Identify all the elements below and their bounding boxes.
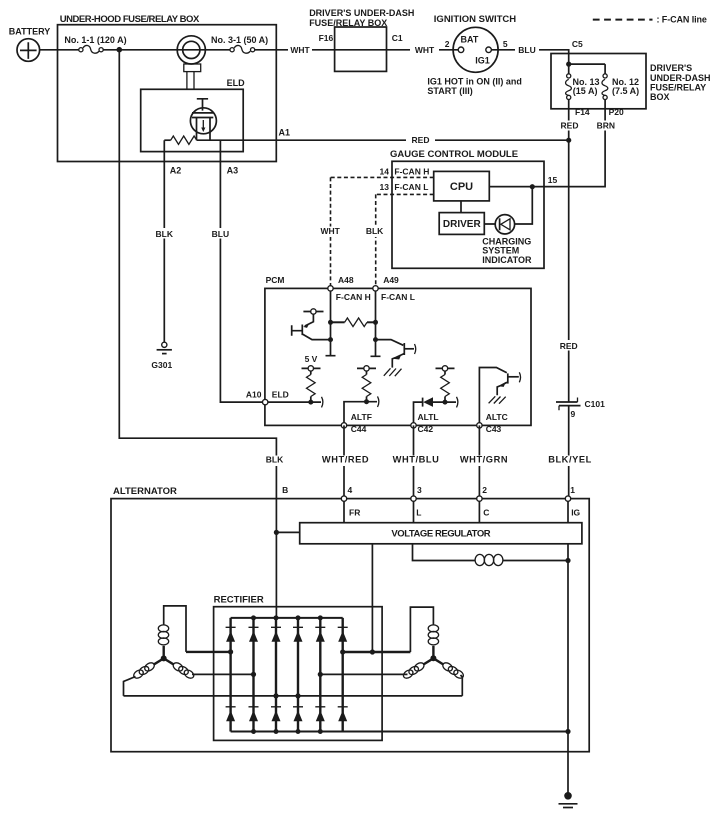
- svg-text:(15 A): (15 A): [573, 86, 598, 96]
- svg-text:FUSE/RELAY: FUSE/RELAY: [650, 83, 706, 93]
- svg-text:4: 4: [348, 485, 353, 495]
- svg-text:P20: P20: [609, 107, 624, 117]
- svg-text:BLK: BLK: [266, 455, 284, 465]
- svg-text:UNDER-DASH: UNDER-DASH: [650, 73, 711, 83]
- svg-text:DRIVER: DRIVER: [443, 219, 482, 230]
- svg-text:5: 5: [503, 39, 508, 49]
- svg-text:No. 1-1 (120 A): No. 1-1 (120 A): [64, 35, 126, 45]
- svg-text:BATTERY: BATTERY: [9, 26, 51, 36]
- svg-text:IG1: IG1: [475, 55, 490, 65]
- svg-text:F-CAN L: F-CAN L: [394, 182, 428, 192]
- svg-text:FR: FR: [349, 508, 360, 518]
- svg-text:L: L: [416, 508, 421, 518]
- svg-text:F-CAN L: F-CAN L: [381, 292, 415, 302]
- svg-text:C101: C101: [585, 399, 606, 409]
- svg-text:WHT: WHT: [290, 45, 310, 55]
- svg-text:IG: IG: [571, 508, 580, 518]
- svg-text:RED: RED: [560, 341, 578, 351]
- svg-text:BLK: BLK: [366, 226, 384, 236]
- svg-text:9: 9: [571, 409, 576, 419]
- svg-text:1: 1: [570, 485, 575, 495]
- svg-text:WHT: WHT: [321, 226, 341, 236]
- svg-text:2: 2: [482, 485, 487, 495]
- svg-text:C44: C44: [351, 424, 367, 434]
- svg-text:CPU: CPU: [450, 181, 473, 193]
- svg-text:A10: A10: [246, 389, 262, 399]
- svg-text:14: 14: [380, 166, 390, 176]
- svg-text:C: C: [483, 508, 489, 518]
- svg-text:C42: C42: [418, 424, 434, 434]
- svg-text:A48: A48: [338, 275, 354, 285]
- svg-text:ALTC: ALTC: [486, 412, 508, 422]
- svg-text:RECTIFIER: RECTIFIER: [214, 594, 264, 605]
- svg-text:C5: C5: [572, 39, 583, 49]
- svg-text:ELD: ELD: [227, 78, 246, 88]
- svg-text:GAUGE CONTROL MODULE: GAUGE CONTROL MODULE: [390, 149, 518, 160]
- svg-text:BOX: BOX: [650, 92, 670, 102]
- svg-text:(7.5 A): (7.5 A): [612, 86, 639, 96]
- svg-text:VOLTAGE REGULATOR: VOLTAGE REGULATOR: [391, 529, 490, 540]
- svg-text:DRIVER'S UNDER-DASH: DRIVER'S UNDER-DASH: [309, 8, 414, 18]
- svg-text:WHT: WHT: [415, 45, 435, 55]
- svg-text:F16: F16: [319, 33, 334, 43]
- svg-text:BLK/YEL: BLK/YEL: [548, 455, 592, 465]
- svg-text:RED: RED: [412, 135, 430, 145]
- svg-text:F-CAN H: F-CAN H: [394, 166, 429, 176]
- svg-text:A1: A1: [279, 128, 291, 138]
- svg-text:F14: F14: [575, 107, 590, 117]
- svg-text:A2: A2: [170, 165, 182, 175]
- svg-text:UNDER-HOOD FUSE/RELAY BOX: UNDER-HOOD FUSE/RELAY BOX: [60, 14, 200, 25]
- svg-text:PCM: PCM: [266, 275, 285, 285]
- svg-text:BAT: BAT: [461, 34, 479, 44]
- svg-text:BLK: BLK: [156, 229, 174, 239]
- svg-text:: F-CAN line: : F-CAN line: [657, 14, 707, 24]
- svg-text:ALTL: ALTL: [418, 412, 439, 422]
- svg-text:BLU: BLU: [212, 229, 229, 239]
- svg-text:2: 2: [445, 39, 450, 49]
- svg-text:ALTERNATOR: ALTERNATOR: [113, 486, 177, 497]
- svg-text:3: 3: [417, 485, 422, 495]
- svg-text:WHT/BLU: WHT/BLU: [393, 455, 440, 465]
- svg-text:RED: RED: [561, 120, 579, 130]
- svg-text:5 V: 5 V: [305, 354, 318, 364]
- svg-text:A3: A3: [227, 165, 239, 175]
- svg-text:B: B: [282, 485, 288, 495]
- svg-text:BLU: BLU: [518, 45, 535, 55]
- svg-text:13: 13: [380, 182, 390, 192]
- svg-text:A49: A49: [383, 275, 399, 285]
- svg-text:WHT/GRN: WHT/GRN: [460, 455, 508, 465]
- svg-text:FUSE/RELAY BOX: FUSE/RELAY BOX: [309, 18, 387, 28]
- svg-text:START (III): START (III): [427, 86, 472, 96]
- svg-text:IGNITION SWITCH: IGNITION SWITCH: [434, 14, 516, 25]
- svg-text:No. 3-1 (50 A): No. 3-1 (50 A): [211, 35, 268, 45]
- svg-text:ELD: ELD: [272, 389, 289, 399]
- svg-text:15: 15: [548, 175, 558, 185]
- svg-text:DRIVER'S: DRIVER'S: [650, 63, 692, 73]
- svg-text:WHT/RED: WHT/RED: [322, 455, 369, 465]
- svg-text:C1: C1: [392, 33, 403, 43]
- svg-text:G301: G301: [151, 360, 172, 370]
- svg-text:F-CAN H: F-CAN H: [336, 292, 371, 302]
- svg-text:BRN: BRN: [597, 120, 615, 130]
- svg-text:IG1 HOT in ON (II) and: IG1 HOT in ON (II) and: [427, 76, 522, 86]
- svg-text:INDICATOR: INDICATOR: [482, 255, 532, 265]
- svg-text:C43: C43: [486, 424, 502, 434]
- svg-text:ALTF: ALTF: [351, 412, 372, 422]
